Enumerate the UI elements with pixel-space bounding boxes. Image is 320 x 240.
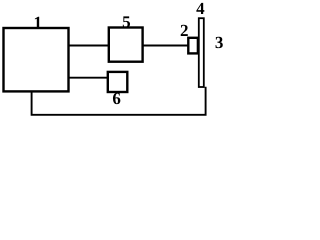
- svg-text:2: 2: [180, 21, 189, 40]
- svg-text:5: 5: [122, 12, 131, 31]
- svg-text:6: 6: [112, 89, 121, 108]
- svg-text:3: 3: [215, 33, 224, 52]
- svg-text:1: 1: [34, 13, 43, 32]
- svg-text:4: 4: [196, 0, 205, 18]
